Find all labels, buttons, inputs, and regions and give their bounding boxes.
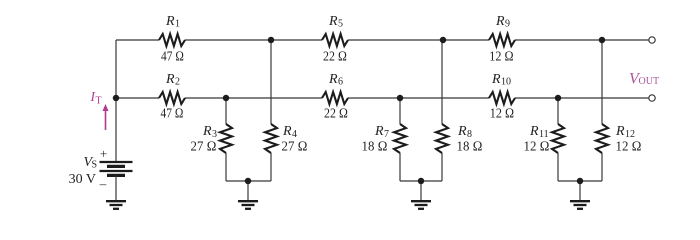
wire top rail segment R1 to node A (185, 39, 322, 41)
svg-text:–: – (99, 176, 107, 191)
ground below R7-R8 (411, 201, 431, 209)
wire second rail left segment (116, 97, 159, 99)
svg-text:22 Ω: 22 Ω (324, 107, 348, 122)
label R6 (328, 72, 343, 88)
node junction dot second rail R11 (555, 95, 562, 102)
resistor R8 (436, 124, 448, 153)
wire R8 bottom (441, 153, 443, 181)
battery plus sign (100, 146, 107, 161)
ground below R11-R12 (570, 201, 590, 209)
svg-text:R: R (328, 72, 338, 87)
label R3 (202, 124, 217, 140)
svg-text:27 Ω: 27 Ω (191, 140, 217, 155)
svg-text:9: 9 (505, 19, 510, 30)
svg-text:8: 8 (467, 129, 472, 140)
wire ground stem R3-R4 (247, 181, 249, 201)
svg-text:2: 2 (175, 77, 180, 88)
label R10 (491, 72, 511, 88)
resistor R5 (322, 34, 348, 46)
svg-text:R: R (615, 124, 625, 139)
wire ground stem R11-R12 (579, 181, 581, 201)
svg-text:4: 4 (292, 129, 297, 140)
svg-text:R: R (457, 124, 467, 139)
label R9 (495, 14, 510, 30)
svg-text:R: R (495, 14, 505, 29)
svg-text:12 Ω: 12 Ω (490, 107, 515, 122)
node junction dot R3-R4 ground (245, 178, 252, 185)
node junction dot top rail node C (599, 37, 606, 44)
wire second rail segment R10 to output terminal (515, 97, 649, 99)
label R4 (282, 124, 297, 140)
value 27 ohm R4 (282, 140, 308, 155)
wire R3 top from second rail (225, 98, 227, 124)
label R1 (165, 14, 180, 30)
value 12 ohm R10 (490, 107, 515, 122)
label R5 (328, 14, 343, 30)
svg-text:3: 3 (212, 129, 217, 140)
svg-text:+: + (100, 146, 107, 161)
value 12 ohm R11 (524, 140, 550, 155)
svg-text:11: 11 (539, 129, 549, 140)
value 47 ohm R1 (161, 50, 184, 65)
resistor R10 (489, 92, 515, 104)
svg-text:R: R (374, 124, 384, 139)
svg-text:47 Ω: 47 Ω (161, 50, 184, 65)
resistor R9 (489, 34, 515, 46)
wire R7 bottom (399, 153, 401, 181)
node junction dot left second rail (113, 95, 120, 102)
svg-text:S: S (92, 160, 98, 171)
wire top rail segment R9 to output terminal (515, 39, 649, 41)
wire R12 bottom (601, 153, 603, 181)
svg-text:30 V: 30 V (69, 172, 96, 187)
svg-text:R: R (165, 72, 175, 87)
label VS (84, 155, 98, 171)
wire R12 top from top rail crossing second rail (601, 40, 603, 124)
battery minus sign (99, 176, 107, 191)
ground below battery (106, 201, 126, 209)
wire ground stem R7-R8 (420, 181, 422, 201)
label R12 (615, 124, 635, 140)
node junction dot R11-R12 ground (577, 178, 584, 185)
svg-text:18 Ω: 18 Ω (457, 140, 483, 155)
node junction dot top rail node B (440, 37, 447, 44)
value 18 ohm R7 (362, 140, 388, 155)
value 30 V (69, 172, 96, 187)
resistor R1 (159, 34, 185, 46)
wire top rail left segment (116, 39, 159, 41)
wire top rail segment R5 to node B (348, 39, 489, 41)
output terminal top (649, 37, 655, 43)
svg-text:OUT: OUT (639, 76, 660, 87)
current arrow IT (103, 104, 109, 130)
wire battery to ground (115, 175, 117, 201)
svg-text:22 Ω: 22 Ω (323, 50, 347, 65)
svg-text:12 Ω: 12 Ω (616, 140, 642, 155)
value 12 ohm R9 (489, 50, 514, 65)
wire R11 bottom (557, 153, 559, 181)
wire bottom R3-R4 (226, 180, 271, 182)
svg-text:T: T (96, 95, 102, 106)
node junction dot R7-R8 ground (418, 178, 425, 185)
svg-text:5: 5 (338, 19, 343, 30)
resistor R12 (596, 124, 608, 153)
svg-text:12 Ω: 12 Ω (489, 50, 514, 65)
node junction dot second rail R3 (223, 95, 230, 102)
wire bottom R11-R12 (558, 180, 602, 182)
value 12 ohm R12 (616, 140, 642, 155)
value 22 ohm R6 (324, 107, 348, 122)
svg-text:7: 7 (384, 129, 389, 140)
svg-text:47 Ω: 47 Ω (161, 107, 184, 122)
label R7 (374, 124, 389, 140)
output terminal bottom (649, 95, 655, 101)
wire second rail segment R6 to R10 (348, 97, 489, 99)
svg-text:1: 1 (175, 19, 180, 30)
ground below R3-R4 (238, 201, 258, 209)
resistor R3 (220, 124, 232, 153)
value 27 ohm R3 (191, 140, 217, 155)
label IT (90, 89, 102, 106)
label R2 (165, 72, 180, 88)
wire R7 top from second rail (399, 98, 401, 124)
node junction dot second rail R7 (397, 95, 404, 102)
wire R11 top from second rail (557, 98, 559, 124)
node junction dot top rail node A (268, 37, 275, 44)
wire left vertical from top rail to battery (115, 40, 117, 162)
resistor R2 (159, 92, 185, 104)
svg-text:18 Ω: 18 Ω (362, 140, 388, 155)
wire R4 top from top rail crossing second rail (270, 40, 272, 124)
label R11 (529, 124, 549, 140)
svg-text:6: 6 (338, 77, 343, 88)
wire bottom R7-R8 (400, 180, 442, 182)
label VOUT (629, 71, 659, 88)
svg-text:27 Ω: 27 Ω (282, 140, 308, 155)
wire second rail segment R2 to R6 (185, 97, 322, 99)
svg-text:R: R (328, 14, 338, 29)
svg-text:R: R (491, 72, 501, 87)
svg-text:R: R (202, 124, 212, 139)
resistor R6 (322, 92, 348, 104)
label R8 (457, 124, 472, 140)
svg-text:R: R (165, 14, 175, 29)
wire R8 top from top rail crossing second rail (441, 40, 443, 124)
battery VS (100, 162, 133, 175)
resistor R7 (394, 124, 406, 153)
svg-text:R: R (282, 124, 292, 139)
svg-text:12: 12 (625, 129, 635, 140)
resistor R4 (265, 124, 277, 153)
svg-text:R: R (529, 124, 539, 139)
svg-text:10: 10 (501, 77, 511, 88)
resistor R11 (552, 124, 564, 153)
wire R4 bottom (270, 153, 272, 181)
wire R3 bottom (225, 153, 227, 181)
svg-text:12 Ω: 12 Ω (524, 140, 550, 155)
value 22 ohm R5 (323, 50, 347, 65)
value 18 ohm R8 (457, 140, 483, 155)
value 47 ohm R2 (161, 107, 184, 122)
